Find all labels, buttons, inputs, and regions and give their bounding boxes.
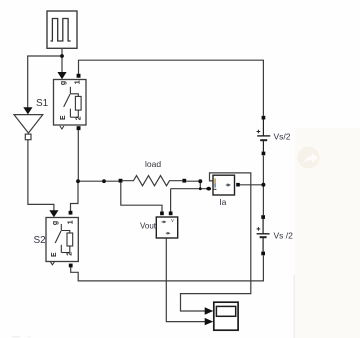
wire S1 terminal2 down to node A bbox=[77, 130, 79, 181]
arrowhead scope input 1 bbox=[205, 307, 214, 314]
wire S1 terminal1 up and right to top rail bbox=[79, 60, 264, 116]
svg-text:S1: S1 bbox=[36, 98, 49, 109]
Ia plus port oval bbox=[206, 187, 211, 191]
S1 terminal1 port bbox=[77, 74, 81, 78]
junction node at pulse branch bbox=[60, 54, 64, 58]
scope screen bbox=[216, 306, 235, 316]
load right port bbox=[182, 179, 186, 183]
svg-text:Vout: Vout bbox=[140, 221, 157, 230]
switch S2 icon bbox=[55, 224, 72, 253]
arrowhead into NOT gate bbox=[23, 107, 32, 114]
svg-text:g: g bbox=[52, 221, 59, 225]
wire node A down to S2 terminal1 bbox=[71, 181, 79, 211]
arrowhead scope input 2 bbox=[205, 318, 214, 325]
Vout icon plus arrow bbox=[162, 220, 167, 223]
svg-text:1: 1 bbox=[68, 220, 75, 224]
svg-text:E: E bbox=[60, 115, 67, 120]
switch S2 block bbox=[46, 218, 78, 262]
faint page edge line bbox=[293, 275, 295, 338]
faint watermark circle bbox=[298, 147, 320, 169]
V2 top port bbox=[261, 215, 265, 219]
load left port bbox=[119, 179, 123, 183]
V1 top port bbox=[262, 116, 266, 120]
faint page tint right side bbox=[295, 128, 360, 338]
arrowhead into S2 gate bbox=[49, 210, 58, 217]
wire NOT gate output to S2 gate bbox=[28, 140, 54, 211]
dc source Vs/2 lower V2 bbox=[257, 219, 270, 252]
switch S1 icon bbox=[64, 87, 81, 117]
junction node B lower bbox=[199, 187, 202, 190]
S2 terminal2 port bbox=[69, 264, 73, 268]
wire node A right to load bbox=[78, 180, 119, 182]
Vout plus port bbox=[160, 212, 164, 216]
junction node A bbox=[76, 179, 80, 183]
wire node B horizontal Vout minus to Ia plus bbox=[171, 188, 207, 190]
current measurement Ia block bbox=[213, 175, 235, 195]
V2 bottom port bbox=[261, 252, 265, 256]
wire down to S1 gate bbox=[61, 56, 63, 73]
wire Vout minus branch down bbox=[170, 189, 172, 212]
svg-text:Ia: Ia bbox=[219, 197, 226, 207]
pulse generator icon bbox=[51, 19, 71, 42]
svg-text:2: 2 bbox=[75, 116, 82, 120]
wire Vout output to scope input 2 bbox=[166, 238, 205, 322]
svg-text:Vs /2: Vs /2 bbox=[274, 231, 294, 241]
svg-text:Vs/2: Vs/2 bbox=[274, 132, 291, 142]
S1 m port chevron bbox=[60, 126, 64, 129]
wire mid rail Vs1 to Vs2 bbox=[262, 156, 264, 216]
NOT gate U1 bbox=[14, 115, 43, 140]
svg-text:S2: S2 bbox=[34, 235, 47, 246]
switch S1 block bbox=[54, 80, 87, 126]
svg-text:2: 2 bbox=[67, 252, 74, 256]
V1 bottom port bbox=[262, 152, 266, 156]
svg-text:g: g bbox=[60, 81, 67, 85]
dc source Vs/2 upper V1 bbox=[257, 120, 271, 152]
wire bottom rail Vs2 to S2 terminal2 bbox=[71, 255, 264, 281]
S2 m port chevron bbox=[50, 262, 54, 265]
S2 terminal1 port bbox=[69, 211, 73, 215]
junction node A2 dot bbox=[102, 179, 106, 183]
wire branch left to NOT gate bbox=[28, 56, 62, 109]
Vout minus port bbox=[169, 212, 173, 216]
scope block bbox=[214, 302, 238, 330]
resistor load bbox=[122, 176, 182, 186]
faint cutoff text smudges bottom-left bbox=[12, 336, 20, 337]
svg-text:load: load bbox=[145, 159, 161, 169]
Vout icon output arrow bbox=[166, 232, 171, 235]
junction mid rail node bbox=[261, 183, 265, 187]
junction node B bbox=[198, 179, 202, 183]
wire Ia signal loop to scope input 1 bbox=[181, 173, 251, 311]
wire pulse generator output down bbox=[61, 48, 63, 56]
svg-text:E: E bbox=[51, 252, 58, 257]
svg-text:1: 1 bbox=[75, 80, 82, 84]
voltage measurement Vout block bbox=[156, 217, 177, 238]
Ia icon i glyph bbox=[214, 179, 217, 190]
wire load right to node B bbox=[186, 181, 200, 189]
Ia minus port bbox=[236, 183, 240, 187]
wire Ia minus to mid rail node bbox=[240, 184, 264, 186]
pulse generator block bbox=[47, 11, 77, 48]
S1 terminal2 port bbox=[77, 126, 81, 130]
arrowhead into S1 gate bbox=[57, 72, 66, 79]
wire load left port tap down to Vout plus bbox=[121, 183, 162, 212]
Ia icon output arrow bbox=[226, 183, 231, 187]
